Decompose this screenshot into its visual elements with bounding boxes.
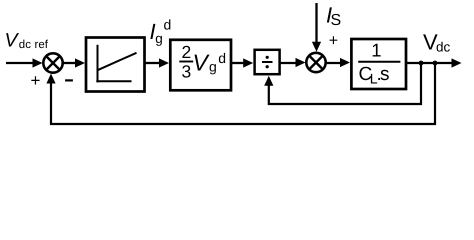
svg-text:V: V: [5, 29, 20, 51]
svg-text:ref: ref: [35, 39, 49, 51]
svg-text:g: g: [209, 59, 217, 75]
svg-text:dc: dc: [19, 39, 31, 51]
svg-text:2: 2: [182, 42, 192, 62]
svg-text:+: +: [329, 33, 338, 50]
svg-text:+: +: [31, 71, 41, 90]
svg-text:3: 3: [182, 61, 192, 81]
svg-text:1: 1: [371, 40, 381, 61]
svg-text:dc: dc: [436, 39, 451, 54]
svg-text:d: d: [218, 50, 226, 66]
svg-text:S: S: [331, 12, 342, 29]
svg-text:s: s: [380, 64, 390, 85]
svg-text:g: g: [155, 31, 163, 46]
svg-text:V: V: [193, 50, 211, 76]
svg-text:d: d: [164, 16, 172, 32]
